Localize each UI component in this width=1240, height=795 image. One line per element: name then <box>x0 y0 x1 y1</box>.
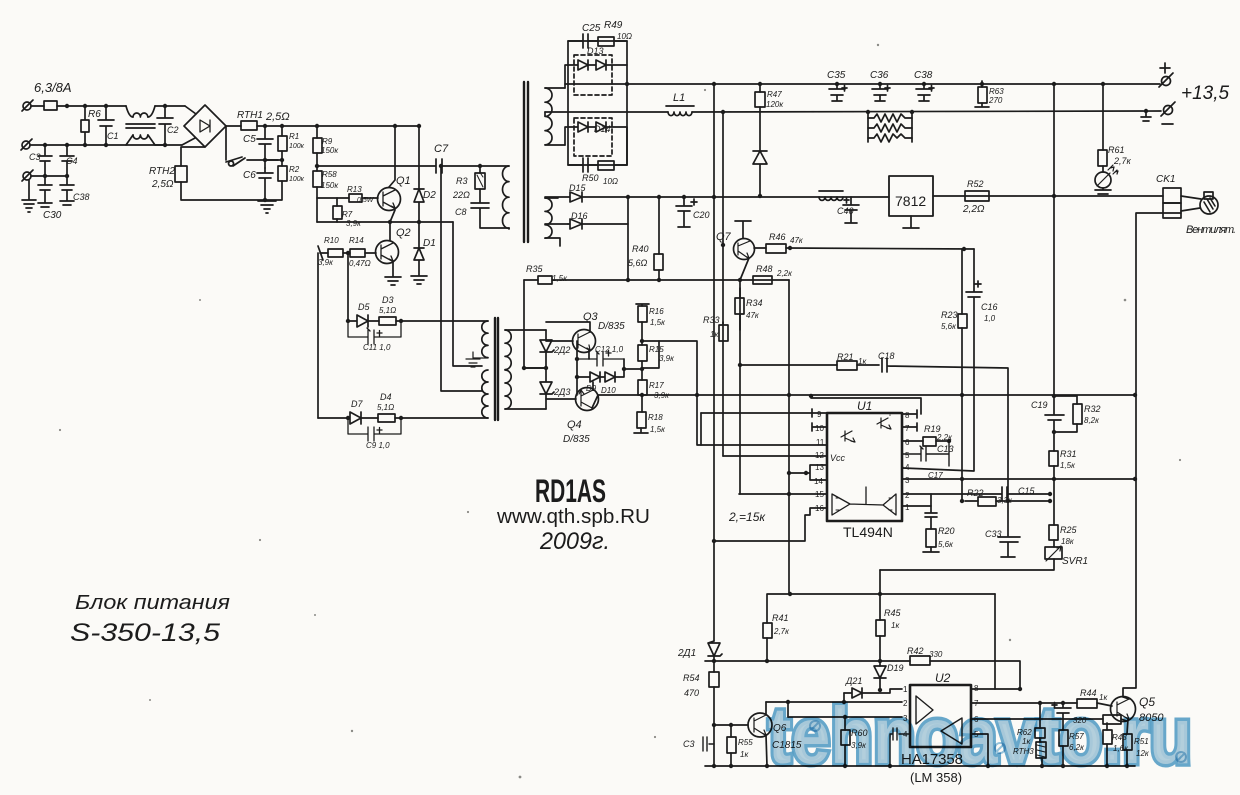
svg-text:R63: R63 <box>989 87 1004 96</box>
svg-text:C9 1,0: C9 1,0 <box>366 441 390 450</box>
svg-text:7812: 7812 <box>895 193 926 209</box>
svg-text:7: 7 <box>905 424 910 433</box>
svg-text:R21: R21 <box>837 352 854 362</box>
svg-text:22Ω: 22Ω <box>452 190 470 200</box>
svg-text:R6: R6 <box>88 109 101 120</box>
svg-text:C4: C4 <box>66 156 78 166</box>
svg-text:18к: 18к <box>1061 537 1075 546</box>
svg-text:R32: R32 <box>1084 404 1101 414</box>
svg-text:1,5к: 1,5к <box>552 274 568 283</box>
svg-text:R58: R58 <box>322 170 337 179</box>
svg-text:10Ω: 10Ω <box>617 32 632 41</box>
svg-text:Q1: Q1 <box>396 175 411 187</box>
svg-text:R1: R1 <box>289 132 299 141</box>
svg-text:1к: 1к <box>710 330 719 339</box>
svg-text:C33: C33 <box>985 529 1002 539</box>
svg-text:D10: D10 <box>601 386 616 395</box>
svg-text:8,2к: 8,2к <box>1084 416 1100 425</box>
svg-text:150к: 150к <box>321 181 339 190</box>
svg-text:2Д2: 2Д2 <box>553 345 570 355</box>
svg-text:R42: R42 <box>907 646 924 656</box>
svg-text:C15: C15 <box>1018 486 1036 496</box>
svg-text:R33: R33 <box>703 315 720 325</box>
svg-text:2,2к: 2,2к <box>776 269 793 278</box>
svg-text:150к: 150к <box>321 146 339 155</box>
svg-text:1,5к: 1,5к <box>650 318 666 327</box>
svg-text:D14: D14 <box>594 124 611 134</box>
svg-text:C18: C18 <box>878 351 895 361</box>
svg-text:Вентилят.: Вентилят. <box>1186 224 1236 236</box>
svg-text:U2: U2 <box>935 671 951 685</box>
svg-text:Q4: Q4 <box>567 419 582 431</box>
svg-text:3: 3 <box>905 476 910 485</box>
svg-text:C1: C1 <box>107 131 119 141</box>
svg-text:D1: D1 <box>423 238 436 249</box>
svg-text:2Д3: 2Д3 <box>553 387 570 397</box>
svg-text:Q7: Q7 <box>716 231 732 243</box>
svg-text:R47: R47 <box>767 90 782 99</box>
svg-text:RTH1: RTH1 <box>237 110 263 121</box>
svg-text:1,5к: 1,5к <box>650 425 666 434</box>
svg-text:SVR1: SVR1 <box>1062 556 1088 567</box>
svg-text:3,9к: 3,9к <box>318 258 334 267</box>
svg-text:R18: R18 <box>648 413 663 422</box>
svg-text:470: 470 <box>684 688 699 698</box>
svg-text:R49: R49 <box>604 20 623 31</box>
svg-text:C36: C36 <box>870 70 889 81</box>
svg-text:R61: R61 <box>1108 145 1125 155</box>
svg-text:D13: D13 <box>587 46 604 56</box>
svg-text:12: 12 <box>815 451 824 460</box>
svg-text:2Д1: 2Д1 <box>677 648 696 659</box>
svg-text:R3: R3 <box>456 176 468 186</box>
svg-text:1: 1 <box>905 503 910 512</box>
svg-text:1,5к: 1,5к <box>1060 461 1076 470</box>
svg-text:6: 6 <box>905 438 910 447</box>
svg-text:tehnoavto.ru: tehnoavto.ru <box>768 691 1192 780</box>
svg-text:1к: 1к <box>858 357 867 366</box>
svg-text:47к: 47к <box>746 311 760 320</box>
svg-text:5,1Ω: 5,1Ω <box>379 306 396 315</box>
svg-text:0,47Ω: 0,47Ω <box>349 259 371 268</box>
svg-text:R46: R46 <box>769 232 786 242</box>
svg-text:RTH2: RTH2 <box>149 166 175 177</box>
svg-text:C2: C2 <box>167 125 179 135</box>
svg-text:Д21: Д21 <box>845 676 862 686</box>
svg-text:3,9к: 3,9к <box>654 391 670 400</box>
svg-text:R14: R14 <box>349 236 364 245</box>
svg-text:D3: D3 <box>382 295 394 305</box>
svg-text:D9: D9 <box>586 384 597 393</box>
svg-text:C38: C38 <box>914 70 933 81</box>
svg-text:C38: C38 <box>73 192 90 202</box>
svg-text:R9: R9 <box>322 137 333 146</box>
svg-text:D15: D15 <box>569 183 587 193</box>
svg-text:R20: R20 <box>938 526 955 536</box>
svg-text:RD1AS: RD1AS <box>535 473 606 509</box>
svg-text:R55: R55 <box>738 738 753 747</box>
svg-text:R34: R34 <box>746 298 763 308</box>
svg-text:C12 1,0: C12 1,0 <box>595 345 624 354</box>
svg-text:0,5W: 0,5W <box>357 197 375 204</box>
svg-text:R52: R52 <box>967 179 984 189</box>
svg-text:120к: 120к <box>766 100 784 109</box>
svg-text:D5: D5 <box>358 302 370 312</box>
svg-text:+13,5: +13,5 <box>1181 83 1230 104</box>
svg-text:D16: D16 <box>571 211 588 221</box>
svg-text:3,3к: 3,3к <box>997 496 1013 505</box>
svg-text:Q3: Q3 <box>583 311 599 323</box>
svg-text:R16: R16 <box>649 307 664 316</box>
svg-text:R17: R17 <box>649 381 664 390</box>
svg-text:R15: R15 <box>649 345 664 354</box>
svg-text:2,7к: 2,7к <box>1113 156 1132 166</box>
svg-text:www.qth.spb.RU: www.qth.spb.RU <box>496 506 650 528</box>
svg-text:10: 10 <box>815 424 824 433</box>
svg-text:2: 2 <box>905 491 910 500</box>
svg-text:6,3/8А: 6,3/8А <box>34 80 72 95</box>
svg-text:R50: R50 <box>582 173 599 183</box>
svg-text:11: 11 <box>816 438 825 447</box>
svg-text:R2: R2 <box>289 165 300 174</box>
svg-text:CK1: CK1 <box>1156 174 1175 185</box>
svg-text:R7: R7 <box>342 210 353 219</box>
svg-text:C17: C17 <box>928 471 943 480</box>
svg-text:14: 14 <box>814 477 823 486</box>
svg-text:1,0: 1,0 <box>984 314 996 323</box>
svg-text:5,6к: 5,6к <box>938 540 954 549</box>
svg-text:100к: 100к <box>289 143 305 150</box>
svg-text:U1: U1 <box>857 399 872 413</box>
svg-text:R48: R48 <box>756 264 773 274</box>
svg-text:C3: C3 <box>29 152 41 162</box>
svg-text:2,=15к: 2,=15к <box>728 510 766 524</box>
svg-text:2,2Ω: 2,2Ω <box>962 204 985 215</box>
svg-text:1к: 1к <box>740 750 749 759</box>
svg-text:2,7к: 2,7к <box>773 627 790 636</box>
svg-text:C25: C25 <box>582 23 601 34</box>
svg-text:D/835: D/835 <box>563 434 590 445</box>
svg-text:TL494N: TL494N <box>843 524 893 540</box>
svg-text:D4: D4 <box>380 392 392 402</box>
svg-text:R13: R13 <box>347 185 362 194</box>
svg-text:Vcc: Vcc <box>830 453 846 463</box>
svg-text:R25: R25 <box>1060 525 1078 535</box>
svg-text:C19: C19 <box>1031 400 1048 410</box>
svg-text:L1: L1 <box>673 92 685 104</box>
svg-text:C5: C5 <box>243 134 256 145</box>
svg-text:C13: C13 <box>937 444 954 454</box>
svg-text:R22: R22 <box>967 488 984 498</box>
svg-text:330: 330 <box>929 650 943 659</box>
svg-text:R10: R10 <box>324 236 339 245</box>
svg-text:C3: C3 <box>683 739 695 749</box>
svg-text:270: 270 <box>988 96 1003 105</box>
svg-text:2,5Ω: 2,5Ω <box>151 179 174 190</box>
svg-text:2,2к: 2,2к <box>936 433 953 442</box>
svg-text:R45: R45 <box>884 608 902 618</box>
svg-text:D7: D7 <box>351 399 363 409</box>
svg-text:C8: C8 <box>455 207 467 217</box>
svg-text:C16: C16 <box>981 302 998 312</box>
svg-text:С11 1,0: С11 1,0 <box>363 343 391 352</box>
svg-text:3,9к: 3,9к <box>659 354 675 363</box>
svg-text:2009г.: 2009г. <box>539 528 610 555</box>
svg-text:5,1Ω: 5,1Ω <box>377 403 394 412</box>
svg-text:9: 9 <box>817 410 822 419</box>
svg-text:47к: 47к <box>790 236 804 245</box>
svg-text:8: 8 <box>905 411 910 420</box>
svg-text:13: 13 <box>815 463 824 472</box>
svg-text:15: 15 <box>815 490 824 499</box>
svg-text:Блок питания: Блок питания <box>75 592 230 614</box>
svg-text:5: 5 <box>905 451 910 460</box>
svg-text:D2: D2 <box>423 190 436 201</box>
svg-text:C40: C40 <box>837 206 854 216</box>
svg-text:R35: R35 <box>526 264 544 274</box>
svg-text:D19: D19 <box>887 663 904 673</box>
svg-text:16: 16 <box>815 504 824 513</box>
svg-text:5,6Ω: 5,6Ω <box>628 258 648 268</box>
svg-text:Q2: Q2 <box>396 227 411 239</box>
svg-text:C6: C6 <box>243 170 256 181</box>
svg-text:4: 4 <box>905 463 910 472</box>
svg-text:D/835: D/835 <box>598 321 625 332</box>
svg-text:2,5Ω: 2,5Ω <box>265 111 290 123</box>
svg-text:5,6к: 5,6к <box>941 322 957 331</box>
svg-text:1к: 1к <box>891 621 900 630</box>
svg-text:100к: 100к <box>289 176 305 183</box>
svg-text:R40: R40 <box>632 244 649 254</box>
svg-text:R41: R41 <box>772 613 789 623</box>
svg-text:C35: C35 <box>827 70 846 81</box>
svg-text:R23: R23 <box>941 310 958 320</box>
svg-text:10Ω: 10Ω <box>603 177 618 186</box>
svg-text:C30: C30 <box>43 210 62 221</box>
svg-text:3,9к: 3,9к <box>346 219 362 228</box>
svg-text:C20: C20 <box>693 210 710 220</box>
svg-text:S-350-13,5: S-350-13,5 <box>70 619 220 647</box>
svg-text:R31: R31 <box>1060 449 1077 459</box>
svg-text:C7: C7 <box>434 143 449 155</box>
svg-text:R54: R54 <box>683 673 700 683</box>
